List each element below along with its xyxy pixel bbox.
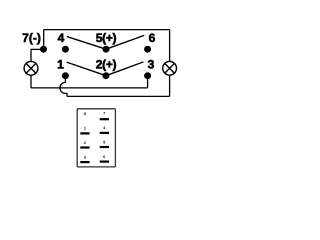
terminal dot pin 5 [103, 46, 110, 53]
pin 4 terminal blade [100, 132, 109, 134]
switch body rear view outline [77, 109, 115, 167]
svg-text:2(+): 2(+) [96, 57, 117, 71]
switch lever 5-6 [106, 35, 144, 49]
svg-text:5(+): 5(+) [96, 31, 117, 45]
terminal dot pin 1 [62, 72, 69, 79]
svg-text:3: 3 [148, 57, 155, 71]
terminal dot pin 6 [144, 46, 151, 53]
pin 2 terminal blade [80, 146, 89, 148]
pin 1 terminal blade [80, 132, 89, 134]
wire net pin1-lamp2 horizontal [67, 95, 170, 97]
terminal dot pin 3 [144, 72, 151, 79]
svg-text:6: 6 [149, 31, 156, 45]
terminal dot pin 7 [40, 46, 47, 53]
wire net lamp1-pin3 horizontal [31, 87, 148, 89]
lamp DS1 [24, 61, 38, 75]
svg-text:4: 4 [58, 31, 65, 45]
wire lamp DS1 down [30, 75, 32, 88]
lamp DS2 [163, 61, 177, 75]
pin 6 terminal blade [100, 161, 109, 163]
switch lever 4-5 [67, 37, 106, 50]
wire top rail [44, 29, 170, 31]
terminal dot pin 2 [103, 72, 110, 79]
wire pin3 down [147, 76, 149, 88]
pin 7 terminal blade [100, 118, 109, 120]
wire pin1 down with hop over crossing [60, 76, 67, 97]
switch lever 2-3 [106, 62, 143, 76]
pin 5 terminal blade [100, 146, 109, 148]
wire pin7 left to lamp DS1 [31, 49, 44, 61]
svg-text:7(-): 7(-) [22, 31, 41, 45]
wire right rail down to lamp DS2 [169, 30, 171, 62]
switch lever 1-2 [67, 62, 106, 76]
wire pin7 up to top rail [43, 30, 45, 50]
pin 3 terminal blade [80, 161, 89, 163]
wire lamp DS2 down [169, 75, 171, 96]
svg-text:1: 1 [57, 57, 64, 71]
terminal dot pin 4 [62, 46, 69, 53]
